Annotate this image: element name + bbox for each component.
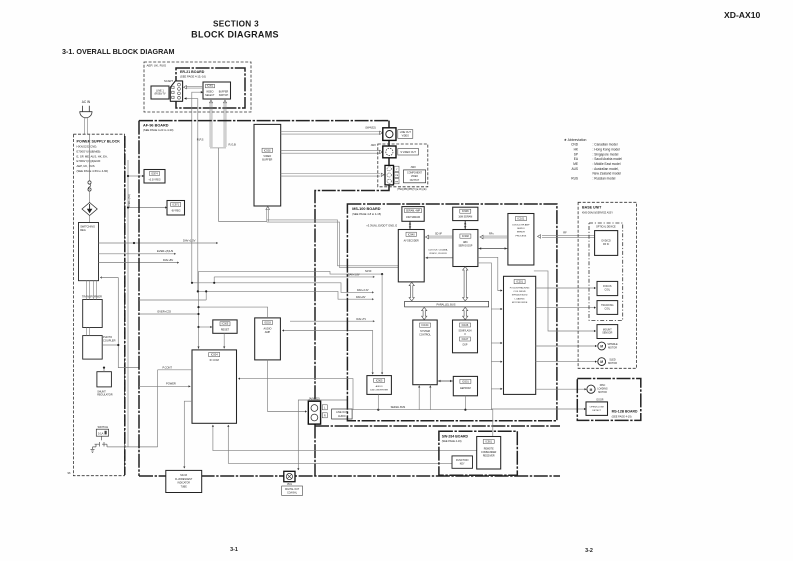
svg-text:MS-100 BOARD: MS-100 BOARD (352, 207, 381, 211)
svg-text:AEP, UK, RUS: AEP, UK, RUS (77, 164, 95, 168)
svg-text:EEPROM: EEPROM (460, 387, 470, 390)
svg-text:BUFFER: BUFFER (262, 158, 272, 161)
svg-text:IC003: IC003 (264, 321, 271, 324)
svg-text:AF-96 BOARD: AF-96 BOARD (143, 124, 169, 128)
svg-text:JA(N)(S2): JA(N)(S2) (309, 398, 320, 401)
svg-text:OPEN/CLOSE: OPEN/CLOSE (590, 406, 605, 408)
AF-96 board border (139, 120, 389, 122)
svg-text:MS-12B BOARD: MS-12B BOARD (612, 410, 638, 414)
svg-text:: Middle East model: : Middle East model (593, 162, 621, 166)
svg-text:AMP: AMP (265, 331, 271, 334)
AC plug (80, 106, 92, 135)
IC971 -9V reg (167, 201, 185, 216)
svg-text:: Canadian model: : Canadian model (593, 143, 618, 147)
svg-text:CDOOUT, CDDATA,: CDOOUT, CDDATA, (428, 249, 448, 252)
svg-text:SWITCH: SWITCH (97, 425, 108, 429)
jack digital out coaxial (284, 471, 295, 481)
reset to IF com (223, 333, 225, 348)
arrow syscon-eeprom (437, 380, 453, 382)
LINE 1 RGB-TV jack (151, 86, 169, 99)
svg-text:JW3: JW3 (410, 165, 416, 169)
svg-text:DAV+3.3V: DAV+3.3V (357, 289, 369, 292)
wires video amp to jacks (281, 131, 380, 133)
IC940 AV decoder (398, 230, 424, 282)
svg-text:EVER+(S)US: EVER+(S)US (157, 249, 173, 253)
svg-text:COMPONENT: COMPONENT (407, 173, 423, 175)
svg-text:(SEE PAGE 4-19): (SEE PAGE 4-19) (612, 415, 632, 418)
svg-text:LINE OUT: LINE OUT (336, 411, 348, 414)
svg-text:REG: REG (80, 228, 86, 232)
svg-text:SW-284 BOARD: SW-284 BOARD (442, 435, 469, 439)
base unit border (578, 202, 637, 368)
svg-text:BLOCK DIAGRAMS: BLOCK DIAGRAMS (191, 30, 279, 40)
mount sensor (597, 325, 618, 339)
svg-text:+3.3V REG: +3.3V REG (148, 178, 160, 181)
audio amp - DA converter wire (284, 331, 373, 374)
svg-text:JW2: JW2 (371, 143, 377, 147)
svg-text:DOOR: DOOR (597, 399, 604, 401)
svg-text:IC001: IC001 (207, 85, 214, 88)
svg-text:EVER+(S3): EVER+(S3) (127, 194, 131, 208)
svg-text:E700GY(V)(4)EUR:: E700GY(V)(4)EUR: (77, 159, 102, 163)
bus arrows (409, 282, 414, 301)
IC906 SDRAM (453, 207, 478, 220)
svg-text:VIDEO: VIDEO (411, 176, 418, 178)
digital out wire (298, 400, 347, 470)
svg-text:: Hong Kong model: : Hong Kong model (593, 147, 621, 151)
svg-text:LOADING: LOADING (597, 387, 608, 390)
wire video amp input from below (266, 209, 268, 222)
P.CONT wire (158, 369, 192, 371)
supply rail wires to MS-100 (199, 271, 383, 274)
svg-text:M: M (590, 388, 593, 392)
svg-text:DAV+1.8V: DAV+1.8V (348, 274, 360, 277)
svg-text:IC101: IC101 (517, 217, 524, 221)
svg-text:OUTPUT: OUTPUT (410, 180, 420, 182)
svg-text:AUDIO: AUDIO (376, 385, 383, 388)
serial bus (353, 409, 493, 411)
wire from switch (107, 446, 158, 448)
svg-text:SWITCH: SWITCH (219, 94, 229, 97)
svg-text:New Zealand model: New Zealand model (593, 172, 622, 176)
IC903 SDRAM (402, 207, 424, 222)
svg-text:AC IN: AC IN (82, 100, 91, 104)
decoder support wires (381, 274, 383, 373)
power supply output wires (99, 242, 219, 244)
svg-text:: Saudi Arabia model: : Saudi Arabia model (593, 157, 623, 161)
svg-text:IC004: IC004 (211, 353, 218, 357)
svg-text:ERROR: ERROR (517, 232, 525, 234)
svg-text:IC005: IC005 (222, 323, 229, 326)
IC502 video buffer amp (254, 124, 281, 206)
power supply block border (73, 134, 124, 476)
svg-text:MOTOR: MOTOR (598, 392, 607, 394)
svg-text:DAV+TV: DAV+TV (356, 318, 366, 321)
svg-text:★ Abbreviation: ★ Abbreviation (564, 138, 587, 142)
fluorescent tube wire (184, 401, 192, 468)
wire from SCART down (184, 98, 198, 100)
svg-text:COIL DRIVE: COIL DRIVE (513, 291, 526, 293)
svg-text:3-2: 3-2 (585, 548, 593, 554)
remote commander receiver (477, 437, 501, 470)
IC104 system control (413, 320, 437, 385)
svg-text:-9V REG: -9V REG (171, 209, 181, 212)
svg-text:SCART: SCART (164, 79, 173, 83)
svg-text:CDBCK, CDLRCK: CDBCK, CDLRCK (429, 253, 447, 255)
svg-text:TUBE: TUBE (181, 486, 188, 488)
svg-text:DETECT: DETECT (592, 410, 601, 412)
svg-text:PR: PR (395, 181, 398, 183)
svg-text:IC906: IC906 (462, 210, 469, 213)
svg-text:SD I/F: SD I/F (435, 232, 443, 235)
svg-text:(SEE PAGE 4-8 to 4-15): (SEE PAGE 4-8 to 4-15) (352, 212, 381, 216)
audio amp to line out jack (268, 360, 306, 412)
svg-text:SERIAL BUS: SERIAL BUS (391, 406, 406, 409)
svg-text:VIDEO: VIDEO (402, 135, 410, 138)
svg-text:SERVO: SERVO (517, 228, 525, 230)
svg-text:IC107: IC107 (462, 338, 469, 341)
svg-text:PHOTO: PHOTO (103, 335, 112, 339)
svg-text:HXX(S2S) CND;: HXX(S2S) CND; (77, 145, 98, 149)
IC003 audio amp (255, 318, 281, 360)
svg-text:SDRAM, 4MP: SDRAM, 4MP (406, 210, 421, 213)
function key (452, 456, 473, 468)
video bus from AV decoder (267, 220, 399, 266)
svg-text:RFs: RFs (489, 232, 494, 235)
svg-text:SP: SP (574, 152, 578, 156)
svg-text:TRANSFORMER: TRANSFORMER (82, 294, 102, 298)
svg-text:/JW4(S2): /JW4(S2) (365, 125, 376, 129)
arrow SDRAM-decoder (409, 222, 411, 230)
svg-text:R,G,B: R,G,B (229, 143, 237, 147)
IC302 ABC servo DSP (453, 230, 478, 267)
disc loading motor (587, 385, 595, 393)
tracking coil (597, 301, 618, 315)
shunt regulator (97, 372, 112, 387)
svg-text:COAXIAL: COAXIAL (287, 491, 298, 494)
svg-text:3-1: 3-1 (230, 547, 238, 553)
svg-text:PROCESS: PROCESS (516, 235, 527, 237)
svg-text:: Australian model,: : Australian model, (593, 167, 619, 171)
svg-text:ER-21 BOARD: ER-21 BOARD (180, 70, 205, 74)
svg-text:(SEE PAGE 4-59 to 4-60): (SEE PAGE 4-59 to 4-60) (77, 169, 109, 173)
focus coil (597, 281, 618, 295)
svg-text:CND: CND (571, 143, 579, 147)
svg-text:IC974: IC974 (151, 172, 158, 175)
SW-284 board border (439, 431, 517, 475)
sled motor (598, 358, 606, 366)
RGB loop wires from IC001 (209, 100, 212, 103)
svg-text:IC106: IC106 (462, 324, 469, 327)
switch symbol (91, 436, 108, 452)
wire into IC001 from below (192, 92, 202, 111)
jack J403 component video out (385, 165, 394, 185)
MS-12B board border (577, 379, 641, 421)
svg-text:FOCUS/TRACKING: FOCUS/TRACKING (510, 287, 530, 290)
svg-text:POWER SUPPLY BLOCK: POWER SUPPLY BLOCK (77, 140, 121, 144)
svg-text:IC905: IC905 (376, 379, 383, 382)
svg-text:S VIDEO OUT: S VIDEO OUT (400, 151, 416, 154)
svg-text:DSP: DSP (463, 345, 468, 347)
svg-text:(SEE PAGE 4-15,-16): (SEE PAGE 4-15,-16) (180, 75, 206, 79)
svg-text:SDNF/LASH: SDNF/LASH (459, 330, 472, 333)
svg-text:SWITCHING: SWITCHING (80, 225, 95, 229)
wire to +3.3V reg (128, 175, 144, 177)
arrow IC001 to SCART (187, 85, 204, 87)
svg-text:COMMANDER: COMMANDER (481, 451, 497, 454)
svg-text:OPTICAL DEVICE: OPTICAL DEVICE (596, 226, 616, 229)
svg-text:DAV+8V: DAV+8V (163, 258, 173, 262)
svg-text:MOTOR: MOTOR (608, 362, 617, 365)
fuse F901 (89, 134, 91, 180)
serial line DSP-IC101 (478, 248, 508, 250)
svg-text:AUS: AUS (571, 167, 578, 171)
AEP UK RUS dashed box (144, 62, 251, 112)
IC005 reset (213, 320, 237, 333)
svg-text:AV DECODER: AV DECODER (404, 240, 419, 243)
svg-text:RUS: RUS (571, 177, 578, 181)
svg-text:SENSOR: SENSOR (602, 332, 612, 335)
svg-text:COUPLER: COUPLER (103, 339, 116, 343)
IC974 +3.3V reg (144, 170, 165, 184)
svg-text:IC901: IC901 (485, 440, 492, 443)
svg-text:DISC: DISC (600, 385, 606, 387)
svg-text:3-1. OVERALL BLOCK DIAGRAM: 3-1. OVERALL BLOCK DIAGRAM (62, 47, 174, 56)
svg-text:PARALLEL BUS: PARALLEL BUS (437, 303, 456, 307)
RF wire optical to IC101 (542, 234, 595, 236)
svg-text:REGULATOR: REGULATOR (97, 394, 113, 397)
ND-9X fluorescent indicator tube (166, 470, 202, 492)
svg-text:INDICATOR: INDICATOR (177, 482, 190, 485)
svg-text:XD-AX10: XD-AX10 (724, 10, 761, 20)
svg-text:IC502: IC502 (264, 148, 271, 152)
svg-text:E, SP, ME, AUS, HK, EA,: E, SP, ME, AUS, HK, EA, (77, 154, 108, 158)
EVER supply vertical (127, 160, 129, 447)
svg-text:P.CONT: P.CONT (163, 365, 173, 369)
svg-text:(SEE PAGE 4-23 to 4-30): (SEE PAGE 4-23 to 4-30) (143, 128, 174, 132)
svg-text:E700GY(V)(8)M(B):: E700GY(V)(8)M(B): (77, 149, 102, 153)
svg-text:SELECT: SELECT (205, 94, 215, 97)
loading motor wire (536, 388, 586, 390)
svg-text:COIL: COIL (605, 289, 611, 292)
svg-text:SERVO DSP: SERVO DSP (458, 244, 472, 247)
motor and coil drive wires (536, 287, 595, 289)
svg-text:IC302: IC302 (462, 234, 469, 238)
svg-text:IC104: IC104 (422, 323, 429, 327)
svg-text:SPINDLE/SLED: SPINDLE/SLED (512, 295, 528, 297)
IC001 video select buffer switch (203, 82, 231, 99)
EVER+C33 wire (139, 313, 199, 315)
svg-text:DIGITAL OUT: DIGITAL OUT (285, 488, 300, 491)
IF com bottom wires (213, 425, 477, 451)
svg-text:IC940: IC940 (408, 232, 415, 236)
optical device dashed box (589, 223, 623, 320)
svg-text:ME: ME (573, 162, 578, 166)
svg-text:IF COM: IF COM (210, 358, 219, 362)
IC201 motor coil driver (504, 276, 536, 394)
spindle motor (598, 342, 606, 350)
svg-text:IC601: IC601 (462, 380, 469, 383)
svg-text:RF IC: RF IC (603, 243, 610, 246)
dsp to IC201 wires (478, 257, 502, 290)
DVD CD RF IC (595, 231, 618, 256)
svg-text:POWER: POWER (166, 382, 176, 386)
svg-text:KMS-DSA(V)/SERVICE ASSY: KMS-DSA(V)/SERVICE ASSY (582, 212, 613, 215)
svg-text:KEY: KEY (460, 462, 465, 465)
parallel bus (405, 301, 489, 307)
rectifier diode bridge (89, 191, 91, 202)
SD I/F arrow to decoder (428, 235, 453, 237)
IC905 audio DA converter (367, 376, 392, 395)
svg-text:+3.3V(N), EVDD’T GND, E: +3.3V(N), EVDD’T GND, E (366, 224, 397, 228)
svg-text:RECEIVER: RECEIVER (483, 456, 495, 458)
arrow IC101 to DSP RFx (483, 235, 508, 237)
svg-text:BASE UNIT: BASE UNIT (582, 206, 602, 210)
svg-text:DVD/CD RF AMP: DVD/CD RF AMP (512, 224, 530, 227)
wire to -9V reg (128, 207, 167, 209)
IC601 EEPROM (453, 376, 477, 395)
feedback wire photo coupler to switching reg (118, 278, 139, 368)
svg-text:LOADING: LOADING (515, 297, 525, 300)
svg-text:REMOTE: REMOTE (484, 449, 494, 451)
svg-text:D/A CONVERTER: D/A CONVERTER (370, 388, 388, 391)
IC004 IF com (192, 350, 237, 423)
svg-text:16M SDRAM: 16M SDRAM (458, 216, 472, 219)
svg-text:CONTROL: CONTROL (419, 333, 431, 336)
IC101 RF amp servo error process (508, 214, 534, 266)
IC101 to mount sensor wire (534, 271, 595, 331)
svg-text:(SEE PAGE 4-19): (SEE PAGE 4-19) (442, 440, 462, 443)
svg-text:(75Ω)(PR)(PB)(Y)(a,Ch),(E): (75Ω)(PR)(PB)(Y)(a,Ch),(E) (397, 188, 427, 191)
svg-text:COIL: COIL (605, 308, 611, 311)
svg-text:FLUORESCENT: FLUORESCENT (175, 479, 193, 481)
wires transformer-switching (86, 281, 88, 300)
wire to audio amp top (199, 307, 268, 318)
svg-text:ND-9X: ND-9X (180, 475, 187, 477)
svg-text:DAV+8V: DAV+8V (356, 296, 366, 299)
arrow SDRAM-dsp (464, 221, 466, 229)
IC106 flash (453, 320, 478, 353)
svg-text:0.1A: 0.1A (98, 431, 104, 435)
svg-text:RESET: RESET (221, 329, 230, 332)
svg-text:M: M (600, 345, 603, 349)
switching regulator (79, 223, 99, 281)
svg-text:: Singapore model: : Singapore model (593, 152, 619, 156)
MS-100 board border (347, 204, 557, 421)
svg-text:(RGB)-TV: (RGB)-TV (154, 93, 165, 96)
SCART signal pair down (191, 111, 193, 283)
dashed group component video (378, 144, 428, 187)
CD data arrow to decoder (426, 257, 453, 259)
svg-text:16M SDRAM: 16M SDRAM (406, 216, 420, 219)
svg-text:EVER+C33: EVER+C33 (158, 309, 172, 313)
svg-text:MOTOR DRIVE: MOTOR DRIVE (512, 302, 528, 304)
svg-text:RF: RF (563, 230, 567, 234)
svg-text:SECTION 3: SECTION 3 (213, 20, 259, 29)
svg-text:S2’0F: S2’0F (365, 270, 372, 273)
svg-text:MOTOR: MOTOR (608, 346, 617, 349)
svg-text:R,P,S: R,P,S (197, 138, 204, 142)
svg-text:AUDIO: AUDIO (338, 415, 346, 418)
svg-text:IC971: IC971 (172, 203, 179, 206)
svg-text:DAV+1.5V: DAV+1.5V (183, 239, 196, 243)
ER-21 board border (176, 68, 245, 108)
serial to remote receiver (492, 410, 494, 437)
svg-text:: Russian model: : Russian model (593, 177, 616, 181)
svg-text:IC201: IC201 (516, 280, 523, 284)
vertical rails (198, 271, 200, 350)
svg-text:M: M (600, 360, 603, 364)
svg-text:AEP, UK, RUS: AEP, UK, RUS (147, 64, 166, 68)
POWER wire (139, 385, 191, 387)
